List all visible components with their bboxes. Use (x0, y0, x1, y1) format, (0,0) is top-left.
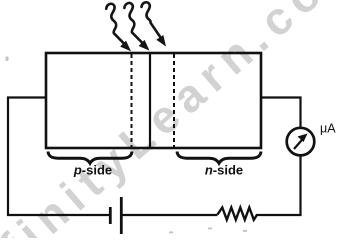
light ray arrow 1 (106, 4, 131, 52)
battery: long (positive) plate (120, 197, 123, 234)
p-n junction line (149, 53, 151, 148)
p-side brace (48, 152, 132, 164)
svg-text:InfinityLearn.com: InfinityLearn.com (0, 0, 340, 238)
microammeter M (287, 128, 315, 156)
wire: right vertical lower (299, 154, 301, 216)
wire: bottom right (257, 214, 302, 216)
photodiode body (46, 53, 261, 148)
light ray arrow 2 (124, 3, 149, 51)
wire: bottom left (7, 214, 110, 216)
svg-text:μA: μA (320, 122, 336, 136)
light ray arrow 3 (142, 2, 167, 46)
wire: bottom middle (122, 214, 218, 216)
wire: stub from p-side to left bus (7, 96, 46, 98)
svg-text:n-side: n-side (205, 163, 243, 178)
resistor R (218, 208, 258, 220)
svg-text:p-side: p-side (73, 163, 112, 178)
depletion boundary right (dashed) (173, 54, 175, 148)
n-side brace (177, 152, 261, 164)
wire: right vertical upper (299, 97, 301, 130)
battery: short (negative) plate (109, 207, 112, 224)
depletion boundary left (dashed) (131, 54, 133, 148)
wire: top right horizontal (260, 96, 302, 98)
wire: left vertical bus (7, 97, 9, 217)
